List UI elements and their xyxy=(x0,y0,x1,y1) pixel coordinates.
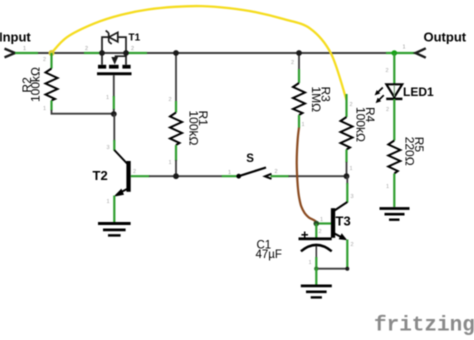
top lead green xyxy=(315,224,317,238)
wire: junction down to T3 collector xyxy=(346,176,348,184)
wire: T2 collector green pin xyxy=(113,140,115,151)
junction node T1 left xyxy=(99,50,105,56)
svg-text:1: 1 xyxy=(403,45,406,51)
transistor T2 (NPN, mirrored) xyxy=(113,150,130,197)
emitter arrow xyxy=(339,233,348,240)
wire: green segment right of T1 xyxy=(126,52,147,54)
svg-text:Output: Output xyxy=(424,29,467,44)
wire: top rail black xyxy=(15,52,393,54)
svg-text:LED1: LED1 xyxy=(403,85,434,99)
svg-text:1: 1 xyxy=(107,199,110,205)
collector slant xyxy=(114,150,127,164)
negative curved plate xyxy=(301,245,332,251)
ground under R5 xyxy=(380,209,410,220)
svg-text:47µF: 47µF xyxy=(256,249,282,261)
svg-text:1: 1 xyxy=(386,184,389,190)
left green pin xyxy=(222,175,239,177)
zigzag body xyxy=(341,117,353,150)
junction node yellow at input xyxy=(49,50,55,56)
top green pin xyxy=(345,94,347,117)
svg-text:T3: T3 xyxy=(336,214,351,229)
right green pin xyxy=(271,175,290,177)
wire: T1 gate lead black upper xyxy=(113,75,115,97)
resistor R4 xyxy=(341,94,353,176)
bottom green pin xyxy=(393,174,395,208)
right contact arrow xyxy=(265,174,272,179)
bottom green pin xyxy=(345,150,347,163)
resistor R5 xyxy=(388,99,400,207)
lever xyxy=(239,168,266,177)
junction node R1 bottom / T2 base xyxy=(173,173,179,179)
wire: T3 collector green pin xyxy=(346,183,348,203)
wire: brown curved wire R3 to T3 base xyxy=(297,128,317,223)
svg-text:1: 1 xyxy=(320,217,323,223)
svg-text:T1: T1 xyxy=(129,33,141,44)
wire: green segment left of T1 xyxy=(84,52,101,54)
svg-text:2: 2 xyxy=(386,107,389,113)
top green pin xyxy=(298,69,300,83)
svg-text:1: 1 xyxy=(106,95,109,101)
svg-text:2: 2 xyxy=(351,242,354,248)
capacitor C1 electrolytic xyxy=(299,224,332,271)
wire: input green pin segment xyxy=(15,52,38,54)
junction node R1 top xyxy=(173,50,179,56)
ground under T2 xyxy=(98,224,131,236)
wire: T1 gate green pin xyxy=(113,96,115,110)
top green pin xyxy=(175,101,177,113)
wire: T3 emitter green pin xyxy=(346,240,348,269)
top lead from rail xyxy=(175,53,177,102)
svg-text:1: 1 xyxy=(309,260,312,266)
svg-text:3: 3 xyxy=(351,194,354,200)
wire: C1/emitter bottom link xyxy=(316,268,347,270)
emitter slant xyxy=(335,234,342,238)
switch S xyxy=(222,168,289,179)
zigzag body xyxy=(46,69,58,101)
wire: top rail green near LED junction xyxy=(386,52,416,54)
svg-text:1: 1 xyxy=(228,170,231,176)
svg-text:T2: T2 xyxy=(93,168,108,183)
triangle xyxy=(386,84,402,97)
collector slant xyxy=(335,202,348,211)
wire: to ground green xyxy=(315,269,317,285)
svg-text:100kΩ: 100kΩ xyxy=(29,67,43,102)
resistor R3 xyxy=(293,53,305,128)
source/drain/body pads xyxy=(98,65,106,69)
base bar xyxy=(126,161,130,192)
svg-text:2: 2 xyxy=(319,229,322,235)
svg-text:2: 2 xyxy=(169,97,172,103)
zigzag body xyxy=(170,113,182,146)
svg-text:1MΩ: 1MΩ xyxy=(309,87,323,113)
ground under C1 xyxy=(301,286,332,298)
bottom green pin xyxy=(175,145,177,161)
junction node C1 bottom xyxy=(314,267,318,271)
body diode loop xyxy=(102,37,108,53)
svg-text:2: 2 xyxy=(275,169,278,175)
junction node R3 top xyxy=(296,50,302,56)
wire: T1 gate to junction xyxy=(113,109,115,114)
resistor R1 xyxy=(170,53,182,176)
wire: switch to R4 junction xyxy=(289,175,348,177)
light arrow 2 xyxy=(378,95,384,101)
svg-text:1: 1 xyxy=(169,160,172,166)
pivot dot xyxy=(236,174,241,179)
svg-text:1: 1 xyxy=(43,106,46,112)
svg-text:2: 2 xyxy=(131,46,134,52)
LED LED1 xyxy=(375,84,403,103)
svg-text:fritzing: fritzing xyxy=(374,315,474,338)
junction node LED top / output xyxy=(392,50,398,56)
svg-text:100kΩ: 100kΩ xyxy=(353,107,367,142)
junction node T1 right xyxy=(123,50,129,56)
svg-text:2: 2 xyxy=(350,102,353,108)
svg-text:2: 2 xyxy=(85,46,88,52)
top green pin from LED xyxy=(393,99,395,141)
gate channel bar xyxy=(97,72,132,75)
wire: T3 base green pin xyxy=(316,222,331,224)
emitter arrow xyxy=(113,189,124,197)
wire: LED top green pin xyxy=(393,53,395,84)
zigzag body xyxy=(388,141,400,174)
light arrow 1 xyxy=(377,88,383,94)
wire: R2 bottom to gate junction xyxy=(52,110,114,114)
wire: T2 emitter green pin xyxy=(113,196,115,223)
wire: T2 base green pin xyxy=(131,175,150,177)
svg-text:S: S xyxy=(246,153,254,165)
svg-text:1: 1 xyxy=(302,122,305,128)
junction node R4 bottom / middle rail xyxy=(344,173,350,179)
bottom lead to junction xyxy=(175,160,177,176)
svg-text:100kΩ: 100kΩ xyxy=(187,111,201,146)
bottom lead black xyxy=(315,246,317,258)
bottom green pin xyxy=(50,101,52,111)
top lead from rail xyxy=(298,53,300,70)
output connector chevron xyxy=(416,48,426,57)
svg-text:1: 1 xyxy=(350,166,353,172)
transistor T1 (MOSFET with body diode) xyxy=(97,31,132,76)
right lead to rail xyxy=(125,53,127,65)
svg-text:2: 2 xyxy=(133,169,136,175)
top green pin xyxy=(50,53,52,69)
junction node gate/R2/T2 xyxy=(111,111,117,117)
plus sign xyxy=(301,234,308,236)
bottom lead to junction xyxy=(346,162,348,176)
body connection with arrow xyxy=(115,53,126,56)
transistor T3 (NPN) xyxy=(331,202,347,240)
junction node emitter corner xyxy=(345,267,349,271)
zigzag body xyxy=(293,83,305,115)
input connector chevron xyxy=(5,49,16,58)
svg-text:Input: Input xyxy=(0,30,31,45)
resistor R2 xyxy=(46,53,58,111)
junction node T3 base / C1 xyxy=(314,221,320,227)
left lead to rail xyxy=(101,53,103,65)
bottom lead green xyxy=(315,257,317,270)
svg-text:2: 2 xyxy=(291,60,294,66)
base bar xyxy=(331,208,335,238)
cathode bar xyxy=(386,98,402,101)
positive plate xyxy=(299,237,332,240)
svg-text:2: 2 xyxy=(43,57,46,63)
wire: junction down to T2 collector xyxy=(113,114,115,141)
svg-text:1: 1 xyxy=(23,46,26,52)
emitter slant xyxy=(119,189,127,193)
svg-text:3: 3 xyxy=(107,145,110,151)
svg-text:2: 2 xyxy=(386,68,389,74)
wire: yellow curved wire xyxy=(52,6,347,100)
pin labels small gray xyxy=(43,57,389,266)
svg-text:220Ω: 220Ω xyxy=(403,137,417,166)
wire: middle rail T2 base to switch xyxy=(149,175,222,177)
bottom green pin xyxy=(298,115,300,128)
